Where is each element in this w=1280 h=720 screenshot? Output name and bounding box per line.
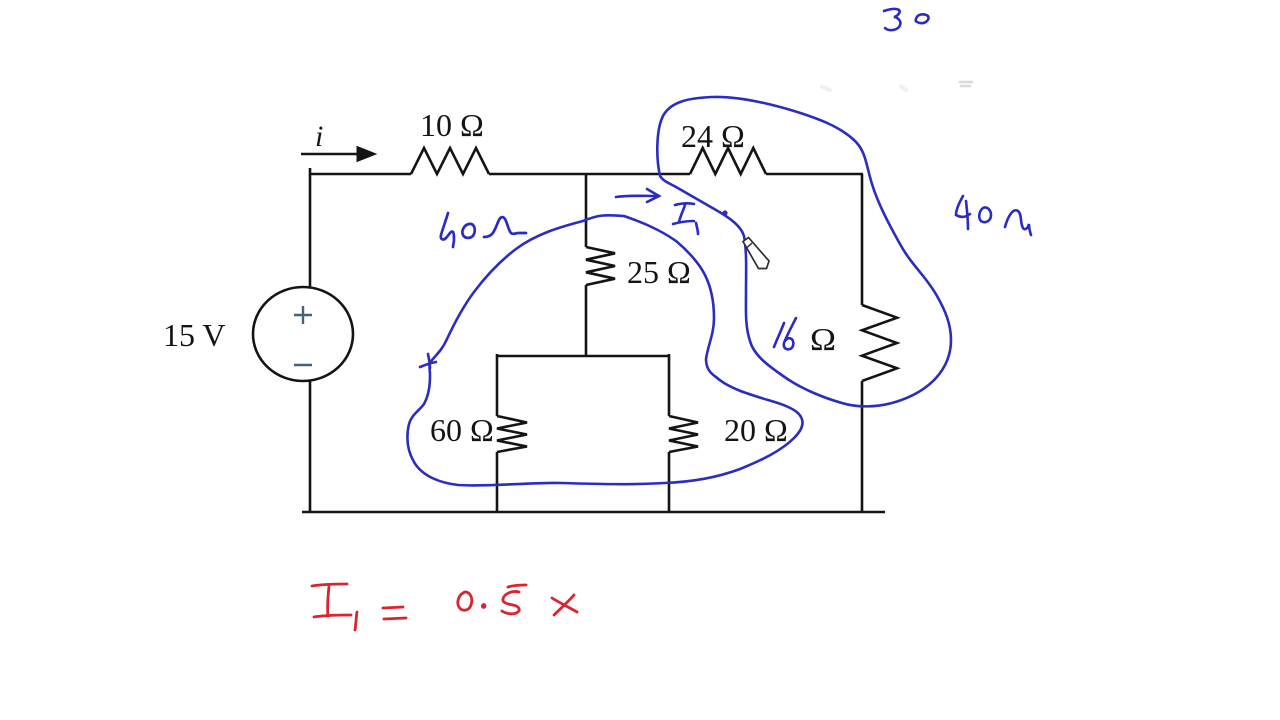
svg-text:25 Ω: 25 Ω xyxy=(627,254,691,290)
resistor 60 ohm xyxy=(497,416,527,452)
svg-text:20 Ω: 20 Ω xyxy=(724,412,788,448)
resistor 25 ohm xyxy=(586,247,615,285)
handwritten blue loop around 24/16 ohms (upper loop) xyxy=(657,97,951,406)
wire: top horizontal left segment xyxy=(310,173,411,176)
wire: right vertical upper xyxy=(861,174,864,305)
wire: middle vertical upper (node to 25 ohm) xyxy=(585,174,588,247)
wire: middle vertical lower (25 ohm to box top) xyxy=(585,285,588,356)
handwritten blue 16 (before printed omega) xyxy=(774,318,796,349)
handwritten red I1 = 0.5 x xyxy=(312,584,577,630)
wire: box top horizontal xyxy=(497,355,669,358)
svg-text:60 Ω: 60 Ω xyxy=(430,412,494,448)
wire: top horizontal middle segment xyxy=(489,173,690,176)
svg-text:Ω: Ω xyxy=(810,321,836,357)
resistor 10 ohm xyxy=(411,148,489,174)
pen cursor icon xyxy=(743,238,769,269)
wire: box right vertical lower xyxy=(668,452,671,512)
svg-text:10 Ω: 10 Ω xyxy=(420,107,484,143)
faint smudge marks (camera artifacts) xyxy=(822,82,972,90)
resistor 20 ohm xyxy=(669,416,698,452)
svg-text:15 V: 15 V xyxy=(163,317,226,353)
wire: box right vertical upper xyxy=(668,354,671,416)
handwritten blue label I1 xyxy=(673,203,698,234)
wire: bottom horizontal xyxy=(302,511,885,514)
svg-text:24 Ω: 24 Ω xyxy=(681,118,745,154)
blue ink dot on upper loop xyxy=(722,210,727,215)
current arrow i (black) xyxy=(301,147,376,162)
handwritten blue loop around 25/60/20 ohms (lower loop) xyxy=(407,215,802,485)
resistor 16 ohm xyxy=(862,305,897,381)
voltage source 15 V circle xyxy=(253,287,353,381)
svg-text:i: i xyxy=(315,120,323,153)
resistor 24 ohm xyxy=(690,148,766,174)
wire: top horizontal right segment xyxy=(766,173,863,176)
handwritten blue 30 (top) xyxy=(884,9,928,30)
wire: right vertical lower xyxy=(861,381,864,512)
voltage source minus sign xyxy=(294,364,312,366)
handwritten blue 40 ohm (left) xyxy=(441,213,526,247)
wire: left vertical lower (source bottom lead) xyxy=(309,381,312,512)
handwritten blue arrow for I1 xyxy=(616,189,659,202)
handwritten blue 40 ohm (right) xyxy=(956,196,1031,235)
wire: left vertical upper (source top lead) xyxy=(309,168,312,287)
voltage source plus sign xyxy=(294,306,312,324)
wire: box left vertical upper xyxy=(496,354,499,416)
tick mark crossing lower loop xyxy=(420,354,436,368)
wire: box left vertical lower xyxy=(496,452,499,512)
